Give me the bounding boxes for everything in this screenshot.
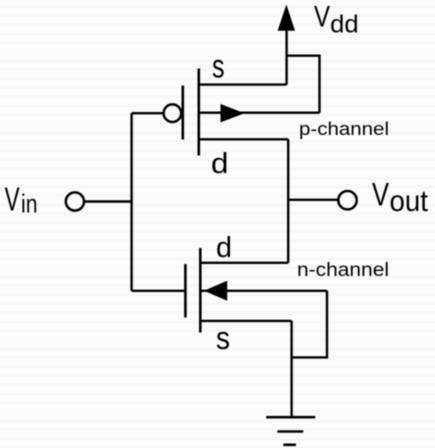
transistor Q2 NMOS source leg wire [200,320,291,322]
transistor Q1 PMOS gate bubble [164,104,182,122]
svg-text:d: d [211,148,229,180]
label Vin [5,180,38,218]
svg-text:n-channel: n-channel [297,260,389,281]
wire Vin vertical [130,113,132,291]
ground bar 2 [277,430,303,433]
label Vout [372,177,429,219]
svg-text:out: out [390,185,429,218]
wire Vin gate wire to PMOS [132,112,164,114]
svg-text:s: s [216,320,230,356]
svg-text:p-channel: p-channel [299,119,389,139]
Vdd supply arrow [278,5,295,31]
wire Vdd vertical [285,28,287,85]
svg-text:dd: dd [330,11,359,39]
svg-text:V: V [314,0,330,33]
transistor Q2 NMOS body leg wire [200,290,327,292]
wire Vout tap [288,199,338,201]
transistor Q1 PMOS source leg wire [199,83,287,85]
ground bar 1 [266,416,315,419]
svg-text:d: d [216,232,232,264]
label Vdd [314,0,359,38]
ground bar 3 [283,443,296,446]
transistor Q2 NMOS channel bar [199,248,202,333]
svg-text:s: s [212,48,225,85]
svg-text:V: V [372,177,390,213]
transistor Q2 NMOS drain leg wire [200,262,288,264]
node Vout terminal circle [338,191,356,209]
wire NMOS source to ground [290,321,292,417]
transistor Q1 PMOS body leg wire [199,111,320,113]
svg-text:in: in [21,188,38,218]
transistor Q2 NMOS gate bar [184,264,187,318]
transistor Q1 PMOS body arrow [221,104,245,122]
svg-text:V: V [5,180,20,217]
transistor Q1 PMOS gate bar [182,86,185,140]
node Vin terminal circle [66,192,84,210]
wire NMOS body to source [292,291,327,358]
transistor Q1 PMOS drain leg wire [199,138,288,140]
transistor Q1 PMOS channel bar [198,69,201,156]
wire Vin horizontal from terminal [84,200,131,202]
wire Vdd branch to PMOS body [287,56,320,113]
wire Vin gate wire to NMOS [132,290,185,292]
transistor Q2 NMOS body arrow [204,281,227,301]
wire Vout vertical [287,139,289,262]
